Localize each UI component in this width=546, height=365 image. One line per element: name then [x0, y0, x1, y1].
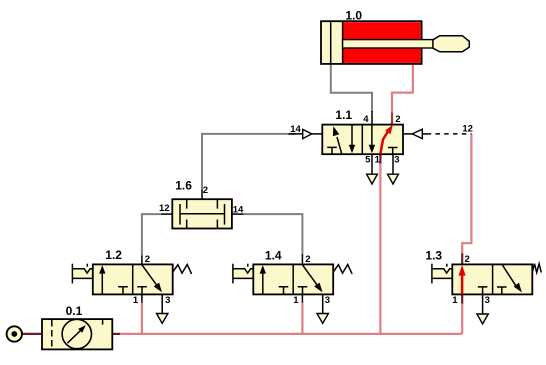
svg-text:1.0: 1.0 — [345, 9, 362, 23]
svg-text:2: 2 — [203, 185, 208, 196]
svg-text:14: 14 — [233, 204, 244, 215]
svg-text:4: 4 — [363, 114, 369, 125]
svg-text:2: 2 — [145, 254, 150, 265]
svg-text:2: 2 — [305, 254, 310, 265]
svg-text:2: 2 — [465, 254, 470, 265]
svg-text:1: 1 — [375, 155, 381, 166]
svg-text:1.3: 1.3 — [425, 248, 442, 262]
svg-text:0.1: 0.1 — [66, 304, 83, 318]
svg-text:5: 5 — [365, 155, 371, 166]
svg-text:12: 12 — [159, 203, 170, 214]
svg-text:3: 3 — [325, 295, 330, 306]
svg-text:1: 1 — [452, 295, 458, 306]
svg-text:1: 1 — [133, 295, 139, 306]
svg-text:1.4: 1.4 — [265, 248, 282, 262]
svg-text:2: 2 — [395, 114, 400, 125]
svg-text:3: 3 — [165, 295, 170, 306]
svg-text:1: 1 — [293, 295, 299, 306]
svg-text:14: 14 — [290, 124, 301, 135]
svg-text:1.6: 1.6 — [175, 178, 192, 192]
svg-text:1.1: 1.1 — [335, 108, 352, 122]
svg-text:12: 12 — [462, 124, 473, 135]
svg-text:3: 3 — [394, 155, 399, 166]
svg-text:3: 3 — [485, 295, 490, 306]
svg-text:1.2: 1.2 — [105, 248, 122, 262]
